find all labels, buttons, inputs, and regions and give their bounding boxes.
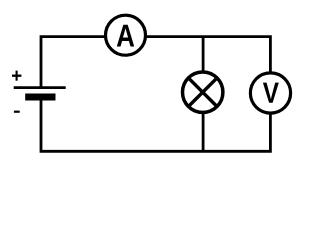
ammeter A1 — [106, 15, 146, 55]
lamp L1 — [183, 72, 223, 112]
battery B1 negative plate — [25, 94, 55, 101]
voltmeter V1 — [250, 73, 290, 113]
battery B1 positive plate — [14, 86, 66, 89]
wire lamp branch — [202, 37, 205, 152]
battery label - — [14, 111, 20, 113]
wire main loop — [41, 37, 270, 152]
battery label + — [12, 71, 21, 81]
